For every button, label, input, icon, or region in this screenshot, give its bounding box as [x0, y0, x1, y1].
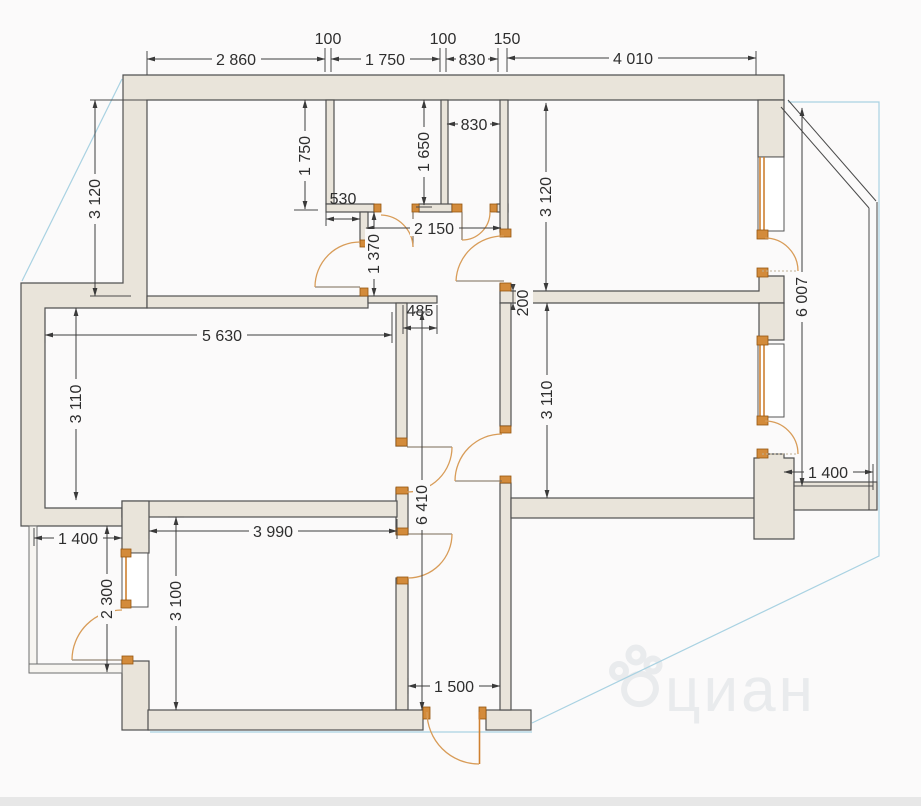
bottom grey bar	[0, 797, 921, 806]
jamb room A door bottom	[360, 288, 368, 296]
svg-text:3 120: 3 120	[87, 179, 104, 219]
balcony door top-right: leaf	[762, 270, 798, 272]
jamb mid-right door bottom	[500, 476, 511, 483]
wall: mid-right room bottom wall	[511, 498, 759, 518]
wall: divider top-right / mid-right rooms (merged with end pieces)	[500, 276, 784, 303]
dim 2150 hall	[366, 227, 501, 229]
wall: corner piece under room C	[497, 204, 508, 212]
dim 3120 left	[94, 100, 96, 296]
door room B: arc	[381, 215, 413, 247]
dim 1500	[408, 685, 500, 687]
storage sliding panel	[122, 553, 148, 607]
svg-text:1 400: 1 400	[58, 531, 98, 548]
ext tick 3100 top	[168, 516, 184, 518]
jamb corridor east door2 bottom	[500, 283, 511, 291]
dim 200 vertical	[512, 285, 514, 309]
wall: hall bottom stub (485)	[368, 296, 437, 303]
dim 1400 balcony	[784, 471, 873, 473]
door storage room: arc	[72, 610, 122, 660]
door room A: leaf	[315, 286, 360, 288]
wall: corridor east wall mid	[500, 303, 511, 426]
wall: block north of storage door	[122, 501, 149, 553]
dim 1750 vertical	[304, 100, 306, 209]
NE diagonal thin wall	[788, 100, 876, 201]
svg-text:1 750: 1 750	[365, 52, 405, 69]
dim 3110 left	[75, 308, 77, 500]
wall: mid-right room east wall upper	[759, 303, 784, 340]
dim 6007 vertical	[801, 108, 803, 486]
door mid-right room: arc	[455, 434, 502, 481]
svg-text:1 750: 1 750	[297, 136, 314, 176]
wall: corridor east wall upper	[500, 100, 508, 232]
wall: divider room A / room B	[326, 100, 334, 204]
jamb room A door top	[360, 240, 368, 247]
door room B: leaf	[412, 212, 414, 247]
dim 6410 vertical	[421, 312, 423, 710]
dim 3120 right	[545, 103, 547, 291]
entrance door: leaf	[479, 712, 481, 764]
wall: divider living / bottom-middle room	[122, 501, 397, 517]
jamb window TR bottom	[757, 268, 768, 277]
svg-text:3 110: 3 110	[68, 384, 85, 423]
door top-right room: arc	[456, 236, 504, 281]
blue plot boundary: top-left diagonal	[22, 79, 122, 281]
balcony door top-right: arc	[765, 238, 798, 271]
svg-text:3 120: 3 120	[538, 177, 555, 217]
svg-text:1 400: 1 400	[808, 465, 848, 482]
jamb window MR bottom	[757, 416, 768, 425]
dim 1370 vertical	[373, 212, 375, 296]
entrance door: arc	[427, 712, 479, 764]
svg-text:5 630: 5 630	[202, 328, 242, 345]
svg-text:100: 100	[430, 31, 457, 48]
ext ticks 3990	[148, 519, 150, 539]
jamb room C door right	[490, 204, 497, 212]
wall: divider room B / room C	[441, 100, 448, 205]
svg-text:циан: циан	[665, 656, 816, 725]
blue plot boundary: along bottom wall	[150, 731, 532, 733]
dim 1400 storage	[34, 537, 122, 539]
ext ticks 200 arrows	[511, 284, 516, 291]
jamb window MR top	[757, 336, 768, 345]
blue plot boundary: top-right	[532, 102, 879, 723]
storage room thin west wall	[29, 526, 37, 672]
jamb window TR top	[757, 230, 768, 239]
svg-text:1 370: 1 370	[366, 234, 383, 274]
svg-text:3 110: 3 110	[539, 380, 556, 419]
wall: bottom-middle room east wall	[396, 578, 408, 710]
jamb storage panel bottom	[121, 600, 131, 608]
door top-right room: leaf	[456, 280, 504, 282]
wall: top + left exterior (merged)	[21, 75, 784, 526]
dim 830 room C	[447, 123, 500, 125]
svg-text:200: 200	[515, 290, 532, 317]
dim 1650 vertical	[423, 100, 425, 205]
dim 3110 right	[546, 303, 548, 498]
dim 3100 vertical	[175, 517, 177, 710]
svg-text:3 100: 3 100	[168, 581, 185, 621]
wall: balcony bottom wall	[794, 482, 877, 510]
dim 4010 top	[507, 57, 756, 59]
window top-right room	[758, 157, 784, 231]
dim 3990	[149, 530, 397, 532]
ext ticks 5630	[44, 312, 46, 343]
door room C: arc	[462, 212, 490, 240]
dim 830 top	[446, 58, 498, 60]
jamb center double	[452, 204, 462, 212]
door bottom-middle room: arc	[408, 534, 452, 578]
dim 485	[403, 327, 437, 329]
wall: strip under room B	[419, 204, 452, 212]
wall: bottom exterior right of entrance	[486, 710, 531, 730]
NE vertical thin wall	[868, 208, 870, 510]
wall: niche west wall	[396, 303, 407, 446]
jamb room B door left... right	[412, 204, 419, 212]
wall: room A door wall	[360, 212, 368, 243]
svg-text:6 007: 6 007	[794, 277, 811, 317]
storage panel orange edge	[125, 553, 127, 607]
window mid-right room	[758, 344, 784, 417]
wall: divider room A / living room	[147, 296, 368, 308]
svg-text:100: 100	[315, 31, 342, 48]
wall: top-right room east wall upper	[758, 100, 784, 157]
jamb entrance left	[423, 707, 430, 719]
door living room: leaf	[407, 446, 452, 448]
door bottom-middle room: leaf	[408, 533, 452, 535]
svg-text:1 500: 1 500	[434, 679, 474, 696]
door living room: arc	[407, 447, 452, 492]
wall: block south of storage door	[122, 661, 149, 730]
door mid-right room: leaf	[455, 480, 502, 482]
svg-text:830: 830	[461, 117, 488, 134]
jamb stub530 right	[374, 204, 381, 212]
svg-text:1 650: 1 650	[416, 132, 433, 172]
door room C: leaf	[461, 212, 463, 240]
dim 530	[326, 218, 360, 220]
jamb mid-right door top	[500, 426, 511, 433]
jamb corridor east door2 top	[500, 229, 511, 237]
jamb bottom-middle east wall top	[397, 577, 408, 584]
svg-text:4 010: 4 010	[613, 51, 653, 68]
wall: bottom exterior left of entrance	[148, 710, 423, 730]
wall: corridor stub between doors	[396, 488, 408, 534]
jamb entrance right	[479, 707, 486, 719]
dim 2860 top	[147, 58, 325, 60]
jamb storage arc door	[122, 656, 133, 664]
jamb corridor stub bottom	[396, 528, 408, 535]
wall: corridor east wall lower	[500, 483, 511, 710]
dim 5630	[45, 334, 392, 336]
watermark paw icon	[612, 648, 660, 709]
storage room thin bottom wall	[29, 664, 122, 673]
door storage room: leaf	[72, 659, 122, 661]
jamb MR balcony door bottom	[757, 449, 768, 458]
wall: stub 530	[326, 204, 374, 212]
svg-text:6 410: 6 410	[414, 485, 431, 525]
jamb storage panel top	[121, 549, 131, 557]
dim 1750 top	[331, 58, 440, 60]
svg-text:530: 530	[330, 191, 357, 208]
balcony door mid-right: leaf	[762, 453, 798, 455]
svg-text:150: 150	[494, 31, 521, 48]
svg-text:2 300: 2 300	[99, 579, 116, 619]
svg-text:830: 830	[459, 52, 486, 69]
jamb corridor stub top	[396, 487, 408, 494]
svg-text:3 990: 3 990	[253, 524, 293, 541]
ticks top dims	[146, 51, 148, 75]
wall: T block bottom right merged with east wall piece	[754, 454, 794, 539]
door room A: arc	[315, 242, 360, 287]
balcony door mid-right: arc	[765, 421, 798, 454]
dim 2300 vertical	[106, 526, 108, 672]
svg-text:2 150: 2 150	[414, 221, 454, 238]
svg-text:2 860: 2 860	[216, 52, 256, 69]
jamb niche wall end	[396, 438, 407, 446]
